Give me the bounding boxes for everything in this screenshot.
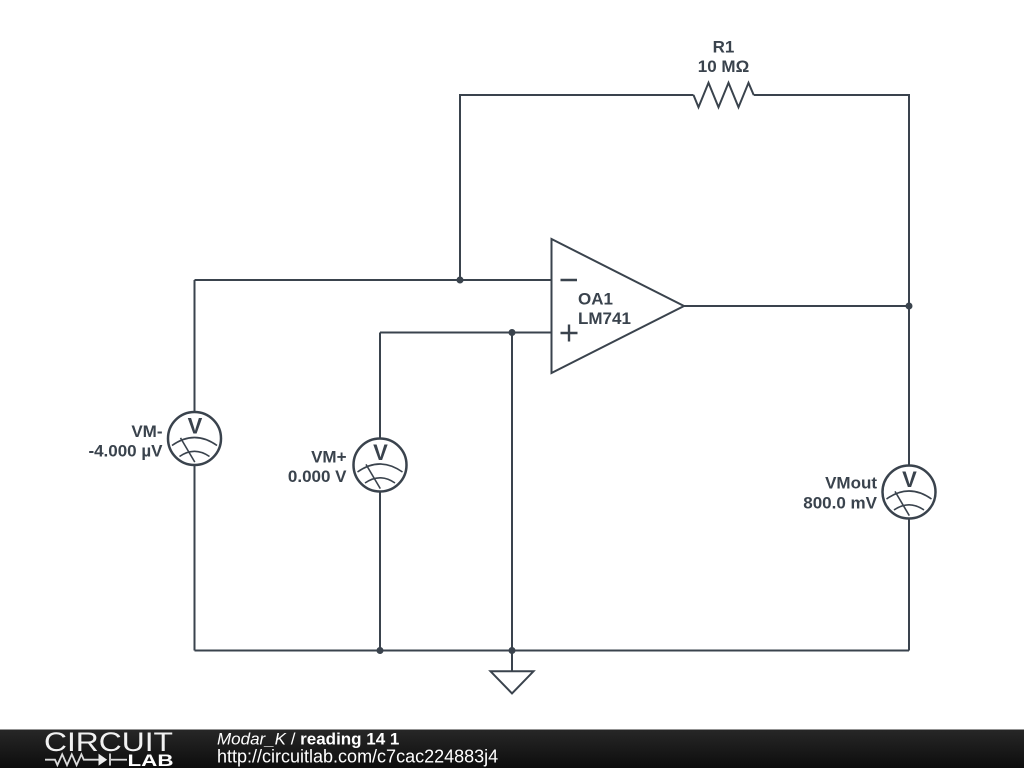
svg-text:V: V: [902, 467, 917, 492]
svg-text:VM-: VM-: [131, 422, 162, 441]
svg-text:0.000 V: 0.000 V: [288, 467, 347, 486]
svg-text:http://circuitlab.com/c7cac224: http://circuitlab.com/c7cac224883j4: [217, 747, 498, 767]
svg-text:800.0 mV: 800.0 mV: [803, 494, 877, 513]
svg-text:R1: R1: [713, 38, 735, 57]
svg-text:VMout: VMout: [825, 474, 877, 493]
svg-text:-4.000 µV: -4.000 µV: [88, 442, 163, 461]
svg-text:LM741: LM741: [578, 309, 631, 328]
svg-text:LAB: LAB: [128, 752, 174, 768]
svg-text:OA1: OA1: [578, 290, 613, 309]
svg-text:V: V: [373, 440, 388, 465]
svg-text:V: V: [188, 413, 203, 438]
svg-text:10 MΩ: 10 MΩ: [698, 57, 749, 76]
svg-text:VM+: VM+: [311, 448, 347, 467]
